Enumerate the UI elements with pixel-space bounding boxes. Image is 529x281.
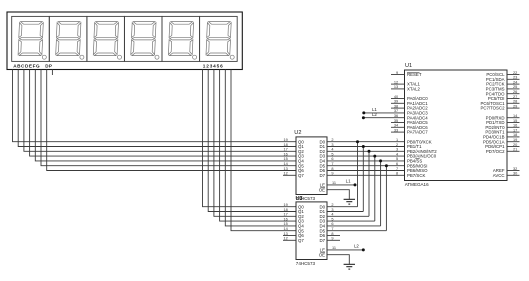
wire segment F to U2.Q5 <box>41 70 296 166</box>
svg-text:Q7: Q7 <box>298 238 304 243</box>
svg-text:18: 18 <box>513 133 517 137</box>
svg-text:5: 5 <box>396 157 398 161</box>
svg-text:Q7: Q7 <box>298 173 304 178</box>
U3 D7 stub (unconnected) <box>327 239 340 241</box>
7-segment display module DS1 outer box <box>7 12 242 70</box>
svg-text:1: 1 <box>396 138 398 142</box>
U3 Q7 stub (unconnected) <box>283 239 296 241</box>
wire U2.D2 to U1.PB2 <box>327 150 405 152</box>
wire U3.D1 to bus <box>327 211 363 213</box>
junction dot net L2 at PA4 <box>362 116 365 119</box>
wire U2.D1 to U1.PB1 <box>327 146 405 148</box>
U1 RESET pin stub <box>391 74 405 76</box>
wire digit 2 to U3.Q1 <box>208 70 296 212</box>
svg-text:18: 18 <box>283 143 287 147</box>
digit cell 1 <box>12 16 50 61</box>
svg-text:19: 19 <box>283 203 287 207</box>
junction dot on D4 <box>379 159 382 162</box>
svg-text:17: 17 <box>513 128 517 132</box>
svg-text:15: 15 <box>283 222 287 226</box>
U2 LE wire to net L1 <box>327 184 355 186</box>
U1 PA5/ADC5 pin stub <box>391 122 405 124</box>
bus vertical D1 to U3.D1 <box>362 147 364 212</box>
svg-text:2: 2 <box>396 143 398 147</box>
wire digit 3 to U3.Q2 <box>214 70 296 217</box>
U2 OE wire to ground <box>327 190 349 199</box>
svg-text:OE: OE <box>319 252 325 257</box>
U1 XTAL2 pin stub <box>391 88 405 90</box>
digit cell 4 <box>124 16 162 61</box>
ground symbol at U2.OE <box>344 199 355 204</box>
bus vertical D2 to U3.D2 <box>368 151 370 216</box>
U1 PA6/ADC6 pin stub <box>391 126 405 128</box>
wire digit 1 to U3.Q0 <box>203 70 297 207</box>
svg-text:30: 30 <box>513 172 517 176</box>
svg-text:ATMEGA16: ATMEGA16 <box>405 182 429 187</box>
svg-text:L2: L2 <box>372 112 377 117</box>
U1 right pin stubs and numbers <box>507 71 520 176</box>
bus vertical D0 to U3.D0 <box>357 142 359 207</box>
latch U3 74HC573 box <box>296 202 327 260</box>
svg-text:28: 28 <box>513 100 517 104</box>
svg-text:D7: D7 <box>319 173 325 178</box>
svg-text:123456: 123456 <box>203 63 224 68</box>
U1 left pin names <box>407 72 437 178</box>
svg-text:15: 15 <box>283 157 287 161</box>
svg-text:U3: U3 <box>296 196 303 202</box>
wire U3.D3 to bus <box>327 220 375 222</box>
svg-text:19: 19 <box>513 138 517 142</box>
svg-text:16: 16 <box>283 217 287 221</box>
wire U3.D0 to bus <box>327 206 358 208</box>
U1 PA0/ADC0 pin stub <box>391 98 405 100</box>
svg-text:74HC573: 74HC573 <box>296 261 316 266</box>
U3 D6 stub (unconnected) <box>327 235 340 237</box>
wire U2.D4 to U1.PB4 <box>327 160 405 162</box>
MCU U1 ATMEGA16 box <box>405 70 508 181</box>
svg-text:25: 25 <box>513 85 517 89</box>
wire segment E to U2.Q4 <box>35 70 296 161</box>
svg-text:27: 27 <box>513 95 517 99</box>
svg-text:PB7/SCK: PB7/SCK <box>407 173 425 178</box>
wire digit 4 to U3.Q3 <box>220 70 296 222</box>
latch U2 74HC573 box <box>296 137 327 195</box>
svg-text:32: 32 <box>513 167 517 171</box>
svg-text:22: 22 <box>513 71 517 75</box>
svg-text:PD7/OC2: PD7/OC2 <box>486 149 505 154</box>
display DP pin stub (unconnected) <box>51 70 53 76</box>
wire U2.D3 to U1.PB3 <box>327 155 405 157</box>
wire digit 5 to U3.Q4 <box>225 70 296 226</box>
U3 LE wire to net L2 <box>327 249 363 251</box>
svg-text:17: 17 <box>283 148 287 152</box>
junction dot net L1 at PA3 <box>362 111 365 114</box>
svg-text:XTAL2: XTAL2 <box>407 87 421 92</box>
junction dot on D2 <box>368 150 371 153</box>
svg-text:PA7/ADC7: PA7/ADC7 <box>407 130 428 135</box>
wire U2.D5 to U1.PB5 <box>327 165 405 167</box>
wire U2.D7 to U1.PB7 <box>327 174 405 176</box>
bus vertical D3 to U3.D3 <box>374 156 376 221</box>
svg-text:20: 20 <box>513 143 517 147</box>
wire segment A to U2.Q0 <box>13 70 297 142</box>
U2 pin names and numbers <box>283 138 336 192</box>
junction dot on D5 <box>385 164 388 167</box>
U3 OE wire to ground <box>327 255 349 264</box>
svg-text:OE: OE <box>319 187 325 192</box>
wire U2.D0 to U1.PB0 <box>327 141 405 143</box>
digit cell 5 <box>162 16 200 61</box>
wire U3.D5 to bus <box>327 230 386 232</box>
U1 XTAL1 pin stub <box>391 83 405 85</box>
svg-text:7: 7 <box>396 167 398 171</box>
wire U1.PA3 to net L1 <box>364 112 405 114</box>
ground symbol at U3.OE <box>344 264 355 269</box>
wire digit 6 to U3.Q5 <box>231 70 296 231</box>
wire segment G to U2.Q6 <box>47 70 296 171</box>
svg-text:13: 13 <box>283 167 287 171</box>
svg-text:PC7/TOSC2: PC7/TOSC2 <box>480 106 505 111</box>
wire U2.D6 to U1.PB6 <box>327 170 405 172</box>
svg-text:15: 15 <box>513 119 517 123</box>
svg-text:6: 6 <box>396 162 398 166</box>
wire segment C to U2.Q2 <box>24 70 296 152</box>
svg-text:ABCDEFG: ABCDEFG <box>13 63 40 68</box>
svg-text:21: 21 <box>513 148 517 152</box>
junction dot on D0 <box>356 140 359 143</box>
svg-text:17: 17 <box>283 213 287 217</box>
junction dot on D1 <box>362 145 365 148</box>
digit cell 3 <box>87 16 125 61</box>
svg-text:RESET: RESET <box>407 72 422 77</box>
junction dot net L1 at U2.LE <box>354 183 357 186</box>
svg-text:18: 18 <box>283 208 287 212</box>
wire U3.D4 to bus <box>327 225 381 227</box>
U1 left pin numbers <box>394 71 399 176</box>
bus vertical D5 to U3.D5 <box>385 166 387 231</box>
U1 PA2/ADC2 pin stub <box>391 107 405 109</box>
svg-text:16: 16 <box>283 152 287 156</box>
svg-text:23: 23 <box>513 76 517 80</box>
U2 Q7 stub (unconnected) <box>283 174 296 176</box>
digit cell 2 <box>49 16 87 61</box>
bus vertical D4 to U3.D4 <box>380 161 382 226</box>
svg-text:8: 8 <box>396 172 398 176</box>
svg-text:AVCC: AVCC <box>493 173 505 178</box>
wire segment B to U2.Q1 <box>18 70 296 147</box>
svg-text:L2: L2 <box>354 244 359 249</box>
svg-text:L1: L1 <box>346 179 351 184</box>
junction dot on D3 <box>373 155 376 158</box>
svg-text:19: 19 <box>283 138 287 142</box>
junction dot net L2 at U3.LE <box>362 248 365 251</box>
svg-text:U1: U1 <box>405 63 412 69</box>
svg-text:3: 3 <box>396 148 398 152</box>
wire U1.PA4 to net L2 <box>363 117 404 119</box>
svg-text:D7: D7 <box>319 238 325 243</box>
U3 Q6 stub (unconnected) <box>283 235 296 237</box>
wire U3.D2 to bus <box>327 215 369 217</box>
U1 PA7/ADC7 pin stub <box>391 131 405 133</box>
svg-text:29: 29 <box>513 104 517 108</box>
svg-text:U2: U2 <box>294 130 301 136</box>
digit cell 6 <box>200 16 238 61</box>
svg-text:16: 16 <box>513 124 517 128</box>
U3 pin names and numbers <box>283 203 336 257</box>
U1 right pin names <box>480 72 505 178</box>
svg-text:DP: DP <box>45 63 52 68</box>
svg-text:26: 26 <box>513 90 517 94</box>
wire segment D to U2.Q3 <box>30 70 296 157</box>
U1 PA1/ADC1 pin stub <box>391 102 405 104</box>
